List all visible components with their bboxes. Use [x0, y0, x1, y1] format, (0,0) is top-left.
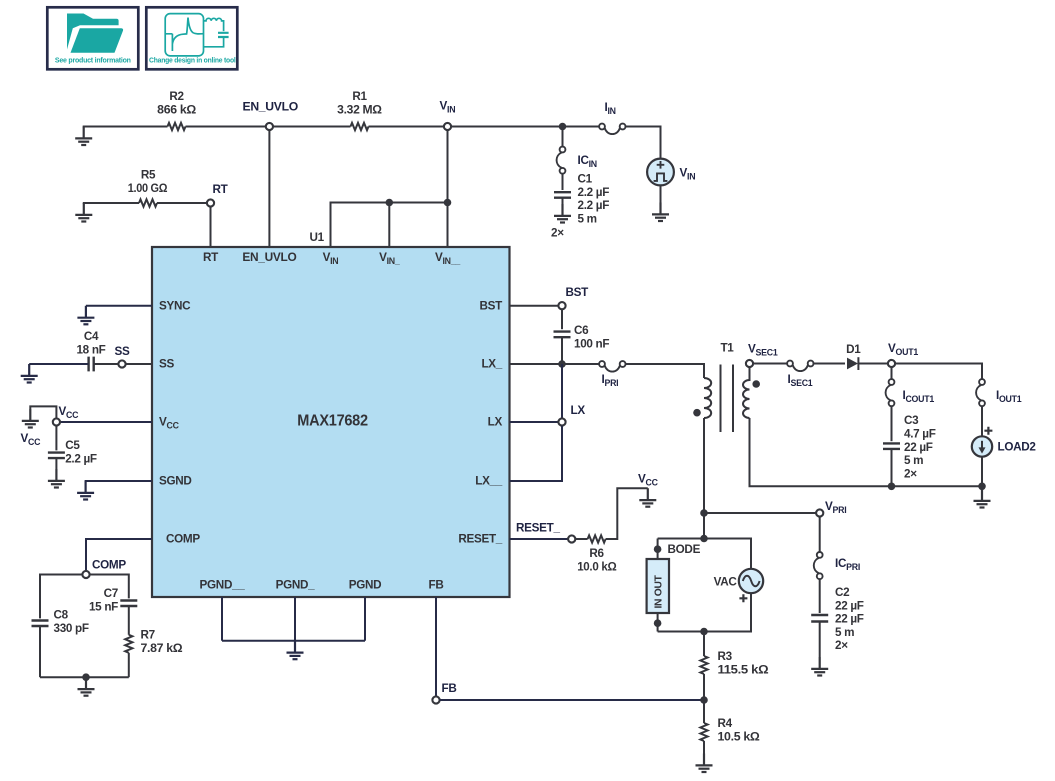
node COMP — [82, 571, 89, 578]
svg-text:FB: FB — [442, 682, 457, 695]
wire VCC node up-left — [30, 406, 56, 418]
capacitor C8 — [32, 621, 49, 627]
capacitor C7 — [120, 601, 137, 607]
resistor R5 — [139, 199, 157, 206]
svg-text:BODE: BODE — [668, 543, 701, 556]
svg-text:RT: RT — [203, 251, 219, 264]
svg-text:PGND: PGND — [349, 579, 382, 592]
wire VSEC1 to probe — [753, 363, 787, 365]
wire VIN__ pin stub — [447, 203, 449, 248]
svg-text:VOUT1: VOUT1 — [888, 342, 918, 357]
capacitor C3 — [883, 443, 900, 449]
junction R3 tee — [700, 628, 708, 636]
ground (C2) — [811, 657, 828, 676]
wire — [369, 126, 444, 128]
svg-text:COMP: COMP — [166, 533, 200, 546]
svg-text:Change design in online tool: Change design in online tool — [149, 58, 236, 65]
wire RESET_ pin to node — [510, 538, 569, 540]
svg-text:LX_: LX_ — [481, 358, 502, 371]
svg-text:R5: R5 — [141, 169, 156, 182]
ground (output rail) — [974, 489, 991, 508]
ground (SYNC) — [77, 306, 94, 325]
wire — [157, 202, 207, 204]
wire PGND stub — [364, 597, 366, 641]
svg-text:22 µF: 22 µF — [835, 599, 864, 612]
wire to VIN source — [626, 127, 661, 159]
wire — [575, 538, 587, 540]
node VOUT1 — [888, 360, 895, 367]
node EN_UVLO — [266, 123, 273, 130]
junction BODE rail tee — [700, 535, 708, 543]
svg-text:5 m: 5 m — [904, 454, 923, 467]
op-amp U1 MAX17682 IC body — [152, 247, 510, 597]
wire LX vertical — [561, 364, 563, 418]
svg-text:3.32 MΩ: 3.32 MΩ — [337, 103, 382, 116]
ground (C1) — [554, 204, 571, 223]
capacitor C1 — [554, 192, 571, 198]
svg-text:COMP: COMP — [92, 559, 126, 572]
junction — [82, 673, 90, 681]
wire C8 down — [39, 626, 41, 677]
svg-text:IN OUT: IN OUT — [654, 574, 665, 608]
svg-text:C6: C6 — [574, 324, 589, 337]
svg-text:RESET_: RESET_ — [516, 522, 560, 535]
svg-text:C5: C5 — [65, 439, 80, 452]
wire R7 down — [128, 653, 130, 677]
wire VPRI — [704, 512, 816, 514]
button: See product information — [47, 7, 138, 69]
wire — [660, 185, 662, 202]
wire EN_UVLO pin stub — [268, 130, 270, 247]
svg-text:MAX17682: MAX17682 — [297, 413, 368, 430]
svg-text:10.5 kΩ: 10.5 kΩ — [718, 730, 760, 743]
wire — [858, 363, 888, 365]
svg-text:EN_UVLO: EN_UVLO — [243, 101, 299, 114]
svg-text:R1: R1 — [352, 90, 367, 103]
junction BODE terminal bottom — [654, 619, 662, 627]
wire VCC node to pin — [60, 421, 152, 423]
wire — [562, 174, 564, 190]
ground (top-left rail) — [75, 127, 92, 146]
svg-text:BST: BST — [480, 299, 504, 312]
node VCC — [53, 418, 60, 425]
wire LX_ pin — [510, 363, 600, 365]
diode D1 — [846, 343, 861, 370]
transformer T1 primary winding — [704, 378, 711, 418]
junction — [978, 483, 986, 491]
node VPRI — [816, 509, 823, 516]
wire PGND bus — [222, 640, 365, 642]
svg-text:IOUT1: IOUT1 — [996, 389, 1022, 404]
svg-text:R7: R7 — [141, 629, 155, 642]
wire — [814, 363, 846, 365]
svg-text:PGND_: PGND_ — [276, 579, 316, 592]
wire FB stub — [435, 597, 437, 696]
svg-text:115.5 kΩ: 115.5 kΩ — [718, 663, 769, 676]
svg-text:ICOUT1: ICOUT1 — [903, 389, 935, 404]
ground (VIN source) — [652, 203, 669, 222]
capacitor C4 — [89, 357, 94, 372]
ground (COMP network) — [78, 677, 95, 696]
wire ICPRI stub — [819, 517, 821, 552]
wire secondary return — [750, 418, 983, 486]
svg-text:ICPRI: ICPRI — [835, 557, 860, 572]
current probe ICIN — [557, 147, 566, 174]
svg-text:R3: R3 — [718, 650, 733, 663]
wire BODE top rail — [658, 539, 751, 570]
wire SYNC to ground — [86, 305, 152, 307]
transformer T1 secondary winding — [743, 367, 750, 418]
svg-text:BST: BST — [566, 286, 590, 299]
resistor R4 — [700, 723, 707, 741]
node VSEC1 — [746, 360, 753, 367]
transformer phase dot primary — [693, 409, 701, 417]
svg-text:IIN: IIN — [605, 101, 616, 116]
svg-text:2.2 µF: 2.2 µF — [65, 452, 97, 465]
wire RT rail — [84, 203, 139, 204]
node LX — [558, 418, 565, 425]
wire R3 to FB junction — [703, 674, 705, 700]
junction — [386, 199, 394, 207]
wire BST pin to node — [510, 305, 559, 307]
svg-text:ICIN: ICIN — [578, 154, 597, 169]
svg-text:VIN: VIN — [680, 167, 696, 182]
svg-text:RT: RT — [213, 183, 229, 196]
wire LX pin to node — [510, 421, 559, 423]
node BST — [558, 302, 565, 309]
wire COMP bottom rail — [40, 676, 129, 678]
junction FB divider — [700, 696, 708, 704]
wire load down — [981, 457, 983, 487]
svg-text:C1: C1 — [578, 173, 593, 186]
wire C3 down — [891, 449, 893, 486]
svg-text:C8: C8 — [54, 609, 69, 622]
svg-text:4.7 µF: 4.7 µF — [904, 428, 936, 441]
node FB — [432, 696, 439, 703]
wire PGND_ stub — [294, 597, 296, 641]
transformer phase dot secondary — [752, 380, 760, 388]
node SS — [118, 360, 125, 367]
wire — [981, 406, 983, 436]
svg-text:LOAD2: LOAD2 — [998, 441, 1037, 454]
svg-text:SYNC: SYNC — [159, 299, 191, 312]
junction — [558, 360, 566, 368]
svg-text:5 m: 5 m — [835, 626, 854, 639]
wire to R4 — [703, 700, 705, 723]
wire BODE bottom rail — [658, 593, 751, 631]
wire — [562, 198, 564, 204]
junction BODE terminal top — [654, 545, 662, 553]
svg-text:C2: C2 — [835, 586, 850, 599]
svg-text:R6: R6 — [589, 547, 604, 560]
wire RT pin stub — [210, 207, 212, 247]
wire — [451, 126, 562, 128]
wire VCC node down — [55, 426, 57, 451]
svg-text:SGND: SGND — [159, 475, 192, 488]
wire to R3 — [703, 632, 705, 657]
ground (C5) — [48, 469, 65, 488]
source VAC — [714, 569, 764, 603]
svg-text:2×: 2× — [835, 639, 848, 652]
svg-text:7.87 kΩ: 7.87 kΩ — [141, 642, 183, 655]
svg-text:U1: U1 — [310, 231, 325, 244]
wire C5 to ground — [55, 458, 57, 469]
ground (R5 rail) — [75, 203, 92, 222]
wire C4 to ground — [29, 363, 88, 365]
svg-text:SS: SS — [159, 358, 174, 371]
wire — [563, 126, 600, 128]
wire — [186, 126, 266, 128]
wire VIN_ pin stub — [388, 203, 390, 248]
wire COMP pin to node — [86, 539, 152, 571]
junction — [888, 483, 896, 491]
svg-text:LX: LX — [488, 416, 503, 429]
svg-text:100 nF: 100 nF — [574, 337, 609, 350]
bode probe box IN OUT — [647, 559, 669, 613]
node RESET_ — [568, 535, 575, 542]
transformer core — [721, 365, 734, 433]
ground (R4) — [696, 754, 713, 773]
wire R4 down — [703, 741, 705, 754]
current probe ICOUT1 — [886, 379, 895, 406]
ground (SGND) — [77, 481, 94, 500]
current probe IOUT1 — [976, 379, 985, 406]
wire primary down — [703, 418, 705, 539]
wire R6 to VCC symbol — [606, 488, 648, 539]
svg-text:VAC: VAC — [714, 576, 738, 589]
svg-text:18 nF: 18 nF — [76, 343, 105, 356]
resistor R2 — [168, 123, 186, 130]
wire — [819, 579, 821, 613]
svg-text:VIN: VIN — [440, 100, 456, 115]
svg-text:See product information: See product information — [55, 58, 131, 65]
svg-text:R4: R4 — [718, 717, 733, 730]
ground (VCC left) — [22, 409, 39, 428]
svg-text:1.00 GΩ: 1.00 GΩ — [128, 182, 168, 195]
wire — [891, 406, 893, 441]
button: Change design in online tool — [146, 7, 237, 69]
junction VPRI tee — [700, 509, 708, 517]
svg-text:LX: LX — [571, 404, 586, 417]
svg-text:C4: C4 — [84, 330, 99, 343]
wire ICOUT1 stub — [891, 367, 893, 379]
svg-text:866 kΩ: 866 kΩ — [157, 103, 196, 116]
svg-text:IPRI: IPRI — [602, 373, 619, 388]
svg-text:LX__: LX__ — [475, 475, 503, 488]
svg-text:2.2 µF: 2.2 µF — [578, 186, 610, 199]
svg-text:ISEC1: ISEC1 — [788, 373, 813, 388]
svg-text:VSEC1: VSEC1 — [748, 343, 778, 358]
load LOAD2 current source — [972, 427, 1037, 457]
svg-text:10.0 kΩ: 10.0 kΩ — [577, 560, 616, 573]
wire LX__ corner — [510, 426, 563, 481]
svg-text:2×: 2× — [904, 467, 917, 480]
svg-text:EN_UVLO: EN_UVLO — [242, 251, 296, 264]
svg-text:22 µF: 22 µF — [904, 441, 933, 454]
svg-text:VCC: VCC — [59, 405, 80, 420]
wire — [273, 126, 351, 128]
wire COMP node rail — [40, 575, 129, 619]
node RT — [207, 199, 214, 206]
wire PGND__ stub — [221, 597, 223, 641]
svg-text:22 µF: 22 µF — [835, 613, 864, 626]
wire SS node to pin — [126, 363, 152, 365]
current probe ISEC1 — [787, 361, 813, 372]
current probe IPRI — [599, 361, 625, 372]
wire IPRI to transformer — [626, 364, 705, 378]
ground (C4) — [21, 364, 38, 383]
svg-text:VCC: VCC — [638, 473, 659, 488]
svg-text:15 nF: 15 nF — [89, 600, 118, 613]
svg-text:D1: D1 — [846, 343, 861, 356]
current probe ICPRI — [814, 552, 823, 579]
resistor R7 — [125, 635, 132, 653]
svg-text:VCC: VCC — [21, 432, 42, 447]
resistor R6 — [588, 535, 606, 542]
capacitor C5 — [48, 453, 65, 459]
capacitor C6 — [554, 332, 571, 338]
svg-text:2.2 µF: 2.2 µF — [578, 199, 610, 212]
svg-text:PGND__: PGND__ — [200, 579, 246, 592]
wire node to C4 — [94, 363, 118, 365]
svg-text:5 m: 5 m — [578, 213, 597, 226]
junction — [444, 199, 452, 207]
svg-text:VPRI: VPRI — [825, 500, 846, 515]
wire top rail left — [84, 127, 168, 128]
source VIN — [647, 159, 695, 186]
junction — [559, 123, 567, 131]
current probe IIN — [599, 124, 625, 135]
wire BST node down — [561, 309, 563, 329]
wire ICIN branch stub — [562, 127, 564, 147]
resistor R1 — [351, 123, 369, 130]
svg-text:RESET_: RESET_ — [458, 533, 502, 546]
svg-text:C3: C3 — [904, 414, 919, 427]
ground (PGND) — [287, 641, 304, 660]
wire BODE stub bottom — [657, 613, 659, 632]
svg-text:330 pF: 330 pF — [54, 622, 89, 635]
power symbol VCC (R6) — [639, 488, 656, 507]
capacitor C2 — [811, 615, 828, 622]
resistor R3 — [700, 656, 707, 674]
wire C6 to LX_ junction — [561, 337, 563, 364]
node VIN top — [444, 123, 451, 130]
wire SGND to ground — [86, 481, 152, 482]
wire VIN branch horizontal — [331, 203, 448, 248]
wire VOUT1 to load branch — [895, 364, 982, 380]
wire FB to divider — [440, 699, 704, 701]
wire VIN node down — [447, 130, 449, 202]
svg-text:R2: R2 — [169, 90, 184, 103]
svg-text:T1: T1 — [720, 342, 734, 355]
svg-text:SS: SS — [115, 345, 130, 358]
wire C2 down — [819, 622, 821, 658]
svg-text:FB: FB — [429, 579, 444, 592]
svg-text:C7: C7 — [104, 587, 118, 600]
wire BODE stub top — [657, 539, 659, 560]
svg-text:2×: 2× — [551, 227, 564, 240]
wire C7 to R7 — [128, 606, 130, 635]
